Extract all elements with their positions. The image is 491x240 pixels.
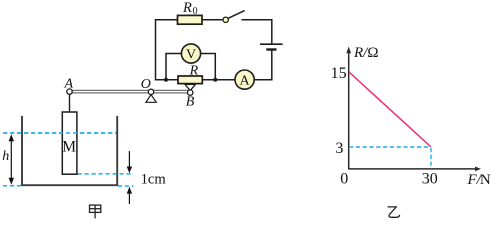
svg-text:h: h [2,149,9,164]
svg-text:1cm: 1cm [141,171,167,187]
svg-text:O: O [141,77,151,92]
svg-text:30: 30 [422,170,438,187]
svg-text:0: 0 [340,170,348,187]
svg-text:A: A [240,74,251,89]
svg-text:R: R [182,0,192,16]
svg-text:15: 15 [331,65,347,82]
svg-text:N: N [480,172,491,188]
svg-text:3: 3 [335,140,343,157]
svg-text:R: R [189,64,199,79]
svg-text:A: A [64,76,74,91]
svg-text:B: B [186,94,195,109]
svg-text:M: M [62,139,76,156]
svg-text:Ω: Ω [367,45,378,61]
svg-text:V: V [186,48,196,63]
svg-text:0: 0 [193,6,198,17]
